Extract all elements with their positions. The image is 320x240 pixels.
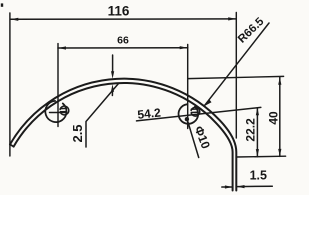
svg-text:66: 66 <box>117 35 129 47</box>
right curl inner hook <box>191 107 200 116</box>
left curl vertical centerline / 66 extension <box>57 44 59 127</box>
arrow 22.2 bottom <box>256 149 259 157</box>
1.5 opposing arrow line <box>222 186 232 188</box>
arrow 22.2 top <box>256 108 259 116</box>
dimension 1.5 line <box>237 185 272 187</box>
dimension 116 line <box>10 18 236 20</box>
40 top extension line <box>188 76 284 78</box>
arrow 40 bottom <box>278 149 281 157</box>
right curl vertical centerline / 66 extension <box>187 45 189 129</box>
arrow 2.5 down (above outer arc) <box>111 71 114 79</box>
svg-text:40: 40 <box>267 111 281 125</box>
svg-text:116: 116 <box>108 3 130 18</box>
40/22.2 bottom extension line <box>237 155 286 158</box>
arrow 1.5 left-pointing <box>237 185 245 188</box>
left curl bead <box>45 101 66 122</box>
right curl sheet end slot <box>191 109 197 113</box>
scan speck top-left <box>1 3 3 6</box>
arrow 40 top <box>278 77 281 85</box>
phi10 leader <box>188 122 199 158</box>
54.2 leader / right curl centerline / 22.2 top extension <box>137 107 261 121</box>
116 left extension line <box>9 13 11 156</box>
left curl sheet end slot <box>60 108 66 111</box>
dimension 66 line <box>58 47 188 49</box>
svg-text:22.2: 22.2 <box>243 118 257 142</box>
part outer profile (arc R66.5 into right vertical wall) <box>10 79 236 191</box>
arrow 1.5 right-pointing <box>225 185 233 188</box>
svg-text:54.2: 54.2 <box>137 105 162 121</box>
R66.5 leader <box>204 23 269 106</box>
arrow R66.5 (on outer arc) <box>204 99 212 106</box>
arrow 116 right <box>228 17 236 20</box>
svg-text:2.5: 2.5 <box>70 124 85 142</box>
dimension 40 line <box>279 77 281 156</box>
dimension 22.2 line <box>256 108 258 157</box>
arrow 2.5 up (below inner arc) <box>111 84 114 92</box>
left tip end face <box>10 144 14 146</box>
arrow 116 left <box>10 18 18 21</box>
arrow 66 left <box>58 46 66 49</box>
arrow 66 right <box>180 46 188 49</box>
svg-text:1.5: 1.5 <box>250 168 267 182</box>
left curl horizontal centerline <box>50 112 67 114</box>
right curl bead <box>179 104 199 123</box>
thickness 2.5 upper stem <box>112 55 114 73</box>
left curl inner hook <box>60 106 69 115</box>
thickness 2.5 lower stem <box>111 90 113 96</box>
leader dot at right curl center <box>185 117 189 121</box>
116 right extension line (wall outer face line) <box>235 13 237 139</box>
thickness 2.5 leader <box>86 84 119 148</box>
part inner profile <box>14 83 233 191</box>
